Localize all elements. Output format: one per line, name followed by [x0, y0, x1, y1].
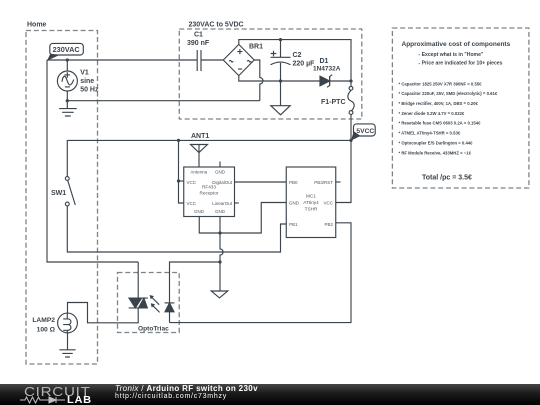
svg-text:GND: GND [215, 209, 226, 214]
svg-text:MC1: MC1 [306, 193, 316, 198]
svg-text:GND: GND [215, 169, 226, 174]
banner title [115, 384, 258, 393]
svg-text:PB3/RST: PB3/RST [314, 180, 333, 185]
wire: 5VCC down to MC1 VCC [336, 140, 351, 202]
lamp LAMP2 [58, 313, 78, 333]
node: RF vcc rail tee [177, 139, 180, 142]
zener diode D1 [320, 75, 332, 88]
earth ground under LAMP2 [59, 350, 75, 357]
home enclosure dashed box [26, 31, 98, 365]
svg-text:SW1: SW1 [51, 190, 66, 197]
ground (chassis) at gnd node [211, 291, 228, 298]
optotriac triac element [129, 298, 148, 308]
wire: triac top from left rail [137, 262, 139, 298]
footer banner [0, 384, 540, 405]
wire: RF vcc pin1 stub [179, 180, 184, 182]
svg-text:220 µF: 220 µF [293, 61, 316, 68]
wire: V1 plus stub [66, 60, 68, 71]
switch SW1 [65, 177, 75, 206]
fuse F1-PTC [348, 86, 354, 114]
svg-text:F1-PTC: F1-PTC [321, 99, 346, 106]
svg-text:230VAC: 230VAC [53, 45, 81, 54]
wire: neutral riser with hop over ground rail [254, 60, 263, 101]
circuitlab logo [24, 384, 91, 399]
node: RF vcc pin1 tee [177, 179, 180, 182]
node: C2 top junction [279, 38, 282, 41]
wire: D1 cathode to junction [330, 80, 351, 82]
capacitor C1 [197, 50, 201, 71]
wire: DigitalOut to PB0 [235, 181, 287, 183]
wire: LED top to gnd node [170, 262, 221, 303]
svg-text:sine: sine [80, 78, 94, 85]
wire: RF GND top open stub [219, 162, 221, 168]
wire: 5VCC rail left to SW1 column [67, 140, 351, 176]
svg-text:* Optocoupler E/S Darlington =: * Optocoupler E/S Darlington = 0.44€ [399, 140, 474, 145]
node: RF gnd bus tee [218, 231, 221, 234]
wire: GND vertical down to gnd node [220, 233, 223, 262]
wire: RF GND bottom-left pin down and over [199, 217, 220, 234]
wire: LinearOut open stub [235, 202, 239, 204]
svg-text:* Capacitor 1825 250V X7R 390N: * Capacitor 1825 250V X7R 390NF = 0.55€ [399, 81, 483, 86]
svg-text:VCC: VCC [187, 201, 197, 206]
wire: F1 bottom stub down to 5VCC node [350, 114, 352, 140]
wire: PB2 right stub down to LED rail [170, 223, 352, 323]
svg-text:* ATMEL ATtiny4-TSHR = 0.53€: * ATMEL ATtiny4-TSHR = 0.53€ [399, 131, 461, 136]
svg-text:50 Hz: 50 Hz [80, 86, 99, 93]
svg-text:PB1: PB1 [289, 222, 298, 227]
node: D1 cathode junction [349, 79, 352, 82]
flag 5VCC [351, 124, 375, 141]
wire: bridge minus stub and ground rail to D1 [239, 76, 320, 81]
node: 5VCC tee [349, 139, 352, 142]
svg-text:* Capacitor 220uF, 25V, SMD (e: * Capacitor 220uF, 25V, SMD (electrolyti… [399, 91, 498, 96]
wire: C2 ground stub down [280, 81, 282, 106]
optotriac light arrows [150, 295, 160, 312]
wire: lamp bottom to earth [67, 333, 69, 350]
wire: GND bus to MC1 GND [220, 203, 286, 234]
node: ground rail at C2 [279, 79, 282, 82]
svg-text:5VCC: 5VCC [356, 128, 374, 135]
ground (chassis) under C2 [271, 106, 290, 115]
svg-text:GND: GND [289, 201, 300, 206]
svg-text:Home: Home [27, 22, 47, 29]
svg-text:C2: C2 [293, 52, 302, 59]
svg-text:Approximative cost of componen: Approximative cost of components [402, 41, 511, 48]
svg-text:- Except what is in "Home": - Except what is in "Home" [419, 52, 484, 58]
wire: C2 top stub [280, 40, 282, 58]
wire: neutral return V1 to bridge riser [67, 100, 259, 102]
mcu MC1 ATtiny4 TSHR [286, 167, 336, 238]
svg-text:* Bridge rectifier, 400V, 1A,: * Bridge rectifier, 400V, 1A, DBS = 0.20… [399, 101, 479, 106]
svg-text:* Resetable fuse CMS 0603 0.2A: * Resetable fuse CMS 0603 0.2A = 0.154€ [399, 121, 482, 126]
logo resistor and diode [20, 397, 65, 403]
power supply enclosure dashed box [179, 29, 361, 119]
wire: C1 right to bridge left corner [201, 59, 223, 61]
wire: PB3/RST open stub [336, 181, 341, 183]
svg-text:C1: C1 [194, 31, 203, 38]
wire: left rail down from flag corner to triac top [47, 60, 138, 262]
wire: V1 minus stub [66, 91, 68, 101]
bridge rectifier BR1 [223, 44, 254, 75]
svg-text:PB2: PB2 [324, 222, 333, 227]
wire: RF GND bottom-right pin down [219, 217, 221, 234]
wire: SW1 bottom to PB1 with hop [67, 206, 286, 252]
svg-text:D1: D1 [320, 58, 329, 65]
optotriac LED element [165, 303, 175, 312]
wire: RF vcc rail down from 5VCC rail [179, 140, 184, 203]
optotriac enclosure dashed box [118, 273, 180, 333]
node: V1 minus junction [66, 99, 69, 102]
svg-text:GND: GND [194, 209, 205, 214]
cost note text [399, 41, 511, 181]
svg-text:ATtiny4: ATtiny4 [303, 200, 319, 205]
svg-text:LinearOut: LinearOut [212, 201, 233, 206]
RF module RF433 Receptor [184, 167, 235, 217]
voltage source V1 [57, 71, 77, 91]
wire: C2 bottom stub to ground rail [280, 63, 282, 81]
svg-text:V1: V1 [80, 70, 89, 77]
wire: gnd node down to chassis ground [219, 262, 221, 291]
svg-text:ANT1: ANT1 [191, 133, 209, 140]
svg-text:RF433: RF433 [202, 184, 216, 189]
svg-text:OptoTriac: OptoTriac [138, 325, 169, 332]
svg-text:* Zener diode 0.2W 4.7V = 0.02: * Zener diode 0.2W 4.7V = 0.022€ [399, 111, 465, 116]
wire: AC live top from flag corner to C1 [47, 59, 197, 61]
svg-text:PB0: PB0 [289, 180, 298, 185]
svg-text:BR1: BR1 [249, 44, 263, 51]
svg-text:390 nF: 390 nF [187, 40, 210, 47]
node: gnd-led tee [218, 260, 221, 263]
svg-text:230VAC to 5VDC: 230VAC to 5VDC [189, 22, 244, 29]
node: 230VAC junction [66, 58, 69, 61]
antenna ANT1 [191, 145, 208, 168]
cost note enclosure dashed box [392, 28, 529, 188]
svg-text:VCC: VCC [187, 180, 197, 185]
flag 230VAC [47, 43, 83, 60]
wire: F1 top stub [350, 81, 352, 87]
svg-text:Total /pc = 3.5€: Total /pc = 3.5€ [422, 174, 472, 181]
svg-text:1N4732A: 1N4732A [313, 65, 341, 72]
wire: triac bottom to lamp rail [68, 303, 139, 323]
earth ground under V1 [59, 101, 76, 116]
wire: LED bottom stub [169, 312, 171, 323]
svg-text:LAMP2: LAMP2 [32, 317, 55, 324]
svg-text:Antenna: Antenna [190, 169, 207, 174]
svg-text:TSHR: TSHR [305, 206, 318, 211]
svg-text:* RF Module Receive, 433MHZ =: * RF Module Receive, 433MHZ = ~1€ [399, 150, 472, 155]
svg-text:- Price are indicated for 10+: - Price are indicated for 10+ pieces [419, 60, 503, 66]
wire: bridge plus stub up and top rail to right side [239, 40, 351, 81]
svg-text:100 Ω: 100 Ω [37, 327, 56, 334]
svg-text:VCC: VCC [323, 201, 333, 206]
capacitor C2 (polarized) [271, 51, 291, 65]
svg-text:Receptor: Receptor [199, 190, 218, 195]
